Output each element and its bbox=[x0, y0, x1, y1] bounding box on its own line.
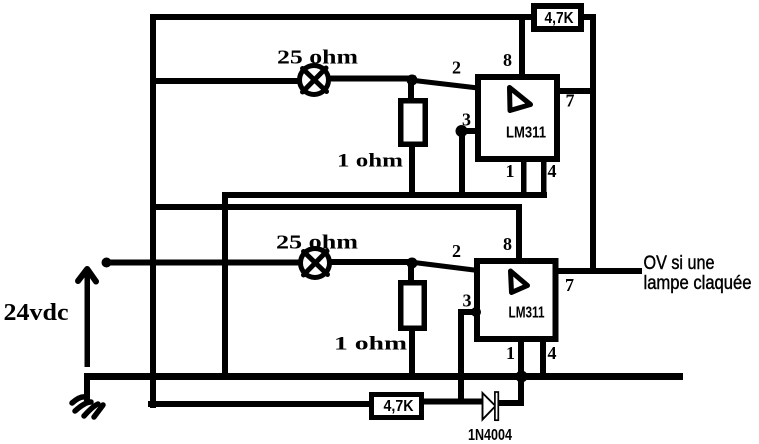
svg-text:3: 3 bbox=[462, 110, 471, 130]
svg-text:1 ohm: 1 ohm bbox=[334, 334, 407, 355]
svg-text:1N4004: 1N4004 bbox=[468, 427, 512, 444]
svg-text:25 ohm: 25 ohm bbox=[276, 232, 358, 254]
svg-text:2: 2 bbox=[452, 241, 461, 261]
svg-text:8: 8 bbox=[503, 234, 512, 254]
svg-text:7: 7 bbox=[566, 91, 575, 111]
svg-text:1: 1 bbox=[506, 343, 515, 363]
svg-text:LM311: LM311 bbox=[509, 305, 545, 322]
svg-text:7: 7 bbox=[565, 275, 574, 295]
svg-text:24vdc: 24vdc bbox=[4, 300, 69, 326]
svg-text:4: 4 bbox=[548, 343, 557, 363]
svg-text:2: 2 bbox=[452, 58, 461, 78]
svg-text:3: 3 bbox=[463, 291, 472, 311]
svg-text:1 ohm: 1 ohm bbox=[337, 151, 403, 172]
svg-text:lampe claquée: lampe claquée bbox=[644, 273, 752, 294]
svg-text:25 ohm: 25 ohm bbox=[277, 47, 358, 69]
svg-text:4: 4 bbox=[548, 161, 557, 181]
svg-text:LM311: LM311 bbox=[506, 125, 546, 142]
svg-text:4,7K: 4,7K bbox=[545, 10, 574, 27]
svg-text:4,7K: 4,7K bbox=[384, 398, 415, 415]
svg-text:OV si une: OV si une bbox=[644, 253, 715, 274]
svg-text:1: 1 bbox=[506, 161, 515, 181]
svg-text:8: 8 bbox=[503, 50, 512, 70]
